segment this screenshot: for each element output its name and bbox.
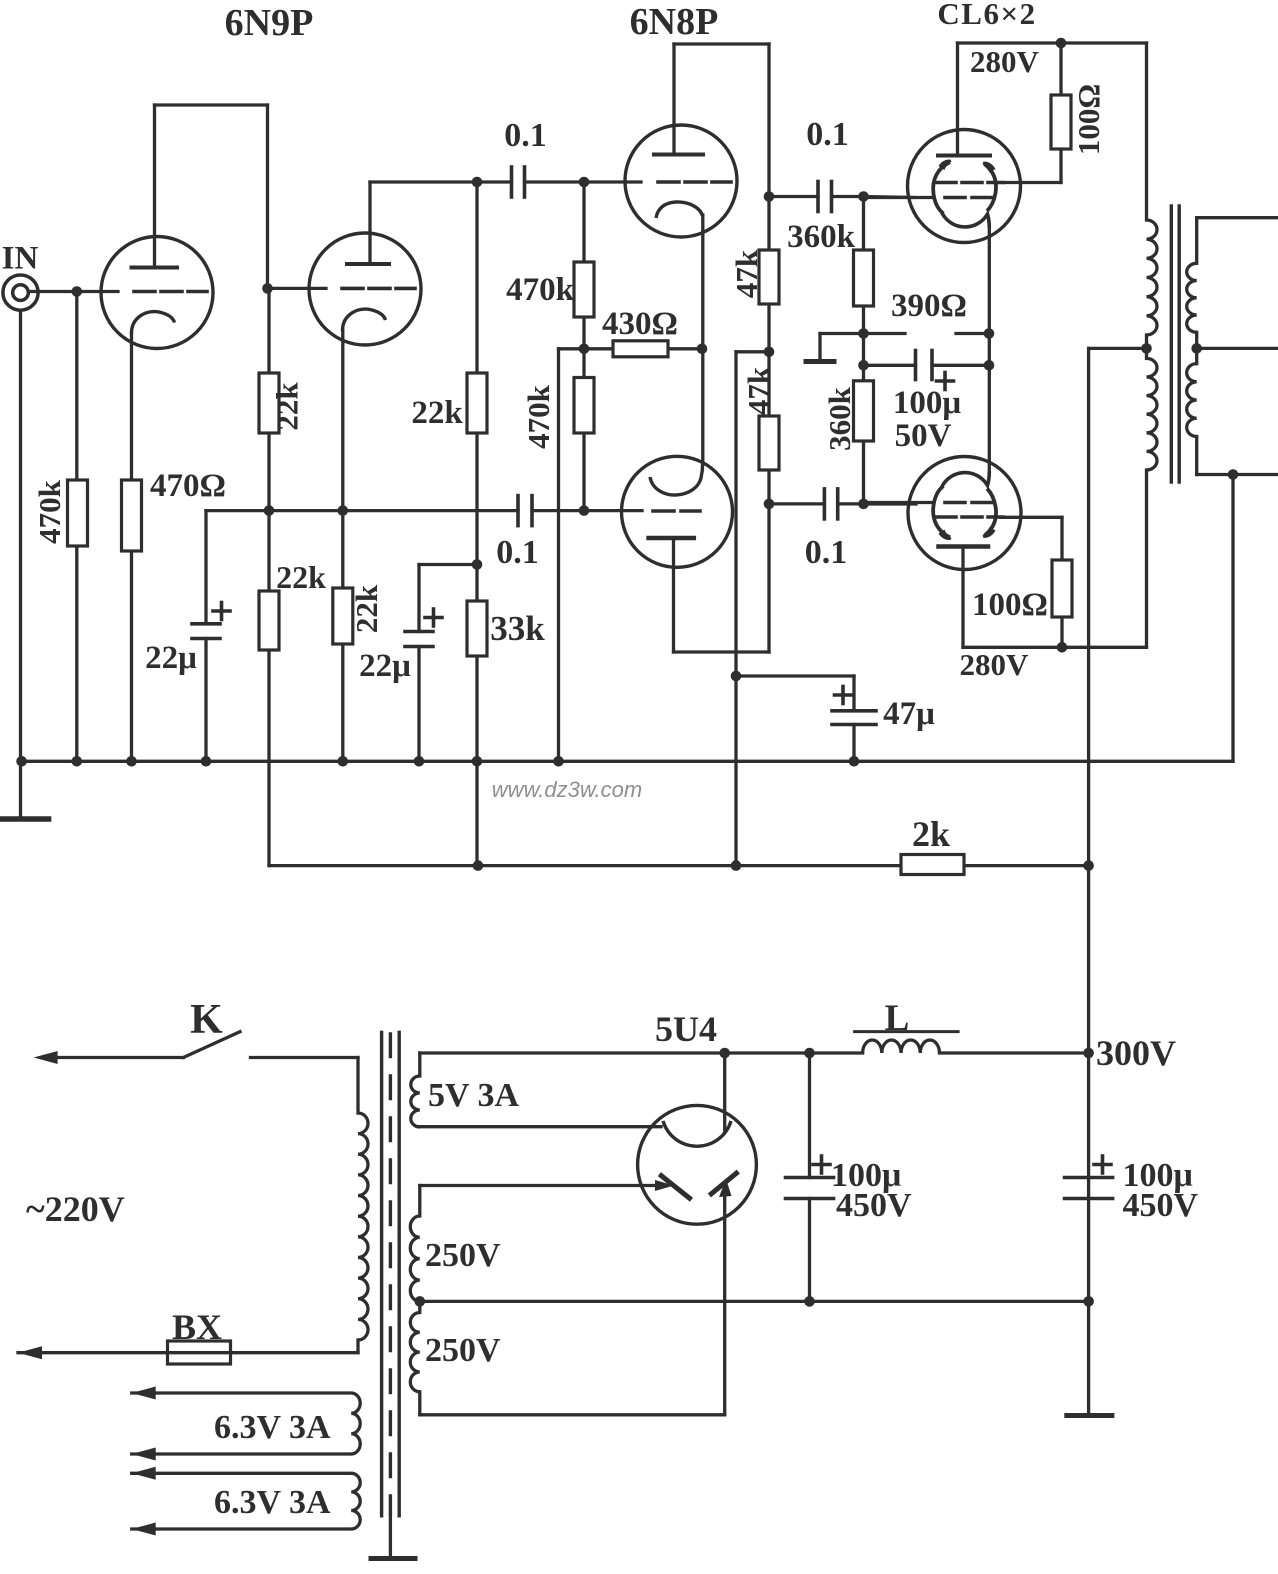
svg-text:470k: 470k <box>506 272 575 308</box>
svg-text:6N8P: 6N8P <box>630 1 719 43</box>
svg-text:www.dz3w.com: www.dz3w.com <box>492 777 642 802</box>
svg-text:22k: 22k <box>349 584 384 633</box>
svg-text:6.3V 3A: 6.3V 3A <box>214 1409 331 1446</box>
svg-text:22μ: 22μ <box>359 648 411 684</box>
svg-text:360k: 360k <box>787 219 856 255</box>
svg-text:50V: 50V <box>895 418 952 454</box>
svg-text:470k: 470k <box>32 479 67 544</box>
svg-text:100μ: 100μ <box>893 385 962 421</box>
svg-text:22k: 22k <box>270 382 305 431</box>
svg-text:BX: BX <box>172 1307 222 1347</box>
svg-text:33k: 33k <box>490 609 545 648</box>
svg-text:6.3V 3A: 6.3V 3A <box>214 1484 331 1521</box>
svg-text:47k: 47k <box>741 366 776 415</box>
svg-text:430Ω: 430Ω <box>602 306 678 342</box>
svg-text:K: K <box>190 997 223 1043</box>
svg-text:0.1: 0.1 <box>805 534 848 571</box>
svg-text:390Ω: 390Ω <box>891 288 967 324</box>
svg-text:0.1: 0.1 <box>504 117 547 154</box>
svg-text:450V: 450V <box>836 1187 912 1224</box>
svg-text:250V: 250V <box>425 1332 501 1369</box>
svg-text:2k: 2k <box>912 814 950 854</box>
svg-text:470Ω: 470Ω <box>150 468 226 504</box>
svg-text:5U4: 5U4 <box>655 1009 717 1049</box>
svg-text:CL6×2: CL6×2 <box>937 0 1036 31</box>
svg-text:300V: 300V <box>1096 1033 1176 1073</box>
svg-text:6N9P: 6N9P <box>225 2 314 44</box>
svg-text:22μ: 22μ <box>145 640 197 676</box>
svg-text:47μ: 47μ <box>883 696 935 732</box>
svg-text:100Ω: 100Ω <box>972 587 1048 623</box>
svg-text:360k: 360k <box>822 386 857 451</box>
svg-text:L: L <box>885 998 910 1039</box>
svg-text:250V: 250V <box>425 1237 501 1274</box>
svg-text:IN: IN <box>2 241 39 277</box>
svg-text:280V: 280V <box>960 647 1030 682</box>
svg-text:~220V: ~220V <box>26 1189 125 1229</box>
svg-text:280V: 280V <box>970 44 1040 79</box>
svg-text:470k: 470k <box>521 384 556 449</box>
svg-text:450V: 450V <box>1123 1187 1199 1224</box>
svg-text:22k: 22k <box>411 395 463 431</box>
svg-text:5V 3A: 5V 3A <box>428 1077 519 1114</box>
svg-text:47k: 47k <box>729 249 764 298</box>
svg-text:100Ω: 100Ω <box>1071 84 1106 155</box>
svg-text:22k: 22k <box>276 559 326 595</box>
svg-text:0.1: 0.1 <box>496 534 539 571</box>
svg-text:0.1: 0.1 <box>806 116 849 153</box>
